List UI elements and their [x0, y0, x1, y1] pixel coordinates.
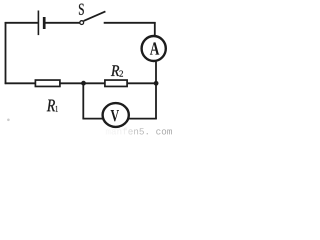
label V (voltmeter)	[111, 110, 119, 121]
label A (ammeter)	[150, 42, 159, 54]
wire corner to voltmeter left	[82, 118, 103, 120]
wire node A down to bottom-left corner of meter branch	[82, 83, 84, 118]
wire R2 to node B	[127, 82, 156, 84]
wire bottom-left horizontal to R1	[5, 82, 36, 84]
label R2	[111, 65, 119, 76]
wire bottom-right corner to voltmeter right	[128, 118, 157, 120]
battery long plate	[37, 11, 39, 36]
label R1 subscript 1	[56, 106, 58, 112]
label S (switch)	[79, 4, 84, 15]
label R1	[47, 100, 55, 112]
wire top-left horizontal	[5, 22, 38, 24]
ammeter circle U1	[142, 36, 166, 61]
wire down from top-right corner to ammeter	[154, 22, 156, 36]
wire battery to switch	[46, 22, 80, 24]
wire switch to top-right corner	[104, 22, 156, 24]
wire ammeter bottom to node B	[155, 62, 157, 84]
switch blade	[84, 11, 106, 21]
junction node A dot	[81, 81, 86, 86]
label R2 subscript 2	[119, 71, 123, 77]
stray gray dot	[7, 119, 10, 122]
resistor R2 box	[105, 80, 127, 86]
resistor R1 box	[35, 80, 60, 86]
battery short plate	[43, 17, 46, 29]
junction node B dot	[154, 81, 159, 86]
wire left rail vertical	[5, 22, 7, 84]
wire node B down to bottom-right corner	[155, 83, 157, 118]
switch pivot contact circle	[80, 21, 84, 25]
voltmeter circle U2	[103, 103, 129, 127]
wire R1 to R2 through node A	[60, 82, 106, 84]
watermark manfen5.com	[106, 128, 172, 135]
